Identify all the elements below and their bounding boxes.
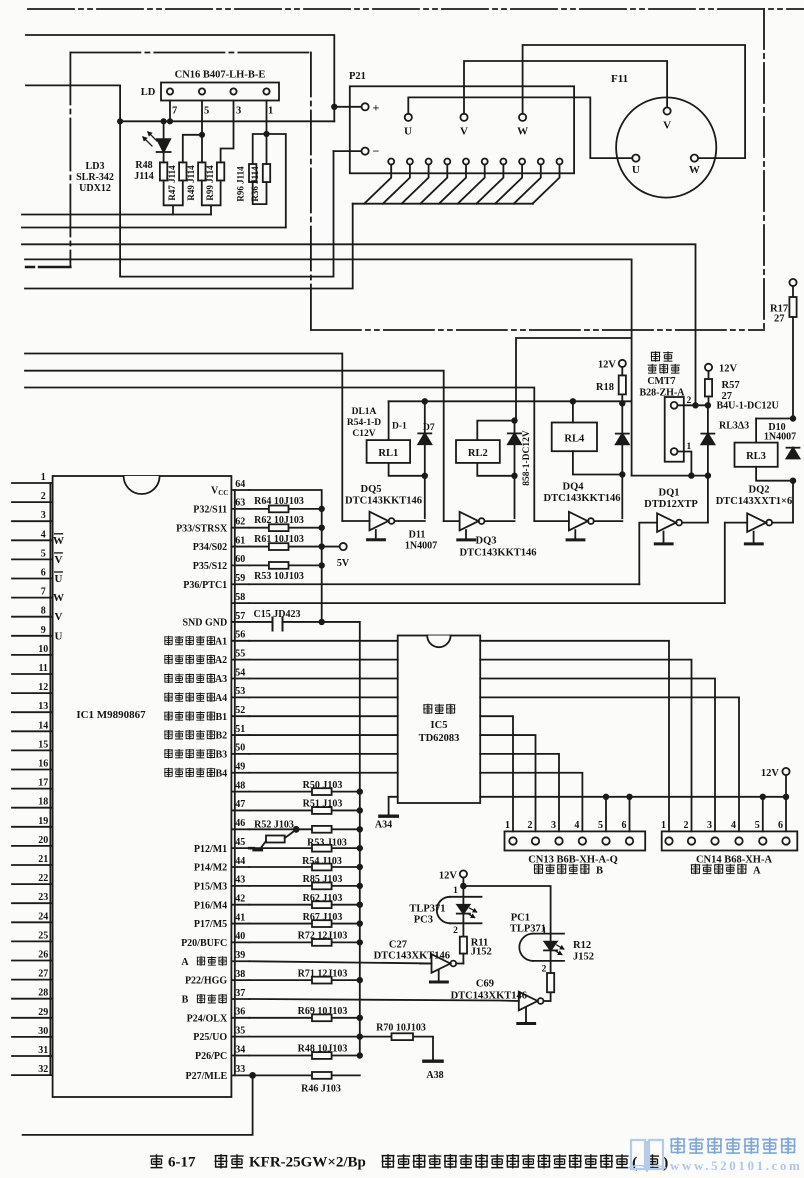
- wire R96-R36 bottom U: [253, 182, 267, 204]
- svg-text:42: 42: [235, 894, 245, 905]
- svg-text:R36 J114: R36 J114: [250, 166, 260, 202]
- wire bundle return: [25, 204, 353, 289]
- relay RL1: [388, 401, 390, 440]
- svg-text:IC1 M9890867: IC1 M9890867: [76, 709, 146, 721]
- terminal 12V valves: [782, 768, 789, 775]
- P21 plus terminal: [362, 103, 369, 110]
- svg-text:R62 J103: R62 J103: [303, 893, 343, 904]
- svg-text:R57: R57: [722, 380, 740, 391]
- IC5 output 2 to CN14 pin2: [480, 660, 691, 832]
- svg-text:27: 27: [38, 969, 48, 980]
- P21 U terminal: [405, 114, 412, 121]
- wire bus1: [22, 214, 211, 216]
- PC1 arrows: [557, 945, 564, 949]
- optocoupler PC1: [533, 934, 564, 961]
- resistor R12: [547, 973, 554, 992]
- diode D10: [787, 447, 800, 449]
- node pin1 dot: [264, 132, 268, 136]
- svg-text:40: 40: [235, 931, 245, 942]
- svg-text:52: 52: [235, 705, 245, 716]
- svg-text:P12/M1: P12/M1: [194, 844, 227, 855]
- svg-text:B: B: [182, 995, 189, 1006]
- wire pin62 + resistor R62: [249, 527, 321, 529]
- svg-text:36: 36: [235, 1007, 245, 1018]
- wire minus return: [121, 151, 334, 277]
- wire relay supply rail: [389, 400, 632, 402]
- svg-text:14: 14: [38, 720, 48, 731]
- node + junction dot: [332, 105, 337, 110]
- svg-text:R96 J114: R96 J114: [236, 166, 246, 202]
- PC3 arrows: [470, 908, 477, 912]
- svg-text:5V: 5V: [337, 558, 350, 569]
- svg-text:32: 32: [38, 1064, 48, 1075]
- wire pin33 + resistor R46: [249, 1074, 359, 1076]
- svg-text:R53 10J103: R53 10J103: [254, 571, 304, 582]
- svg-text:29: 29: [38, 1007, 48, 1018]
- svg-text:12V: 12V: [761, 768, 780, 779]
- svg-text:CMT7: CMT7: [647, 376, 675, 387]
- svg-text:RL4: RL4: [564, 434, 585, 445]
- wire to P21 plus: [334, 106, 361, 108]
- boundary dash-dot small box top: [70, 52, 311, 54]
- svg-text:R12: R12: [573, 940, 591, 951]
- svg-text:A2: A2: [215, 655, 227, 666]
- wire pin46 + resistor R53b: [249, 828, 359, 830]
- svg-text:RL3: RL3: [746, 451, 766, 462]
- svg-text:TLP371: TLP371: [409, 904, 445, 915]
- svg-text:DTD12XTP: DTD12XTP: [644, 499, 698, 510]
- ground C27: [438, 970, 440, 981]
- ground DQ3: [465, 530, 467, 539]
- svg-text:J152: J152: [471, 947, 492, 958]
- wire pin35 + resistor R70 to A38: [249, 1037, 433, 1060]
- svg-text:1: 1: [542, 927, 547, 937]
- svg-text:3: 3: [41, 510, 46, 521]
- F11 W terminal: [691, 155, 698, 162]
- wire 12V rail valves: [480, 797, 786, 832]
- svg-text:13: 13: [38, 701, 48, 712]
- P21 W terminal: [519, 114, 526, 121]
- svg-text:+: +: [373, 101, 380, 115]
- wire R48-R47 bottom U: [164, 181, 183, 215]
- svg-text:3: 3: [236, 106, 241, 117]
- svg-text:45: 45: [235, 837, 245, 848]
- wire CN16 pin3: [221, 101, 234, 163]
- node feed dot: [118, 119, 122, 123]
- IC5 output 8 to CN13 pin4: [480, 773, 582, 832]
- svg-text:R64 10J103: R64 10J103: [254, 496, 304, 507]
- svg-text:B: B: [596, 866, 603, 877]
- svg-text:P26/PC: P26/PC: [195, 1051, 227, 1062]
- wire W phase: [523, 45, 746, 158]
- svg-text:54: 54: [235, 667, 245, 678]
- svg-text:J114: J114: [134, 171, 153, 182]
- LED LD3 symbol: [163, 121, 165, 139]
- svg-text:B4U-1-DC12U: B4U-1-DC12U: [717, 401, 779, 412]
- svg-text:W: W: [517, 126, 528, 138]
- svg-text:R48: R48: [135, 160, 152, 171]
- svg-text:R69 10J103: R69 10J103: [298, 1006, 348, 1017]
- P21 minus terminal: [362, 148, 369, 155]
- svg-text:R18: R18: [596, 382, 614, 393]
- diode D7: [424, 401, 426, 433]
- svg-text:33: 33: [235, 1064, 245, 1075]
- svg-text:59: 59: [235, 573, 245, 584]
- wire CMT7 pin1: [678, 452, 692, 476]
- svg-text:DQ4: DQ4: [563, 482, 585, 493]
- boundary dash-dot bottom-left stub: [26, 266, 70, 268]
- svg-text:DQ2: DQ2: [749, 485, 770, 496]
- wire pin64 Vcc: [249, 490, 321, 622]
- IC1 top notch: [124, 476, 160, 494]
- terminal 5V: [340, 543, 347, 550]
- svg-text:PC1: PC1: [511, 913, 530, 924]
- svg-text:DTC143XXT1×6: DTC143XXT1×6: [716, 496, 793, 507]
- svg-text:P34/S02: P34/S02: [193, 542, 227, 553]
- svg-text:38: 38: [235, 969, 245, 980]
- 12V R18 branch: [619, 360, 626, 367]
- ground DQ1: [663, 532, 665, 543]
- svg-text:64: 64: [235, 479, 245, 490]
- svg-text:IC5: IC5: [431, 720, 448, 731]
- wire pin34 + resistor R48b: [249, 1055, 359, 1057]
- wire bus4: [25, 259, 632, 475]
- svg-text:7: 7: [172, 106, 177, 117]
- svg-text:TD62083: TD62083: [419, 733, 460, 744]
- IC5 output 3 to CN14 pin3: [480, 679, 715, 832]
- svg-text:4: 4: [574, 820, 579, 831]
- svg-text:J152: J152: [573, 952, 594, 963]
- svg-text:DTC143KKT146: DTC143KKT146: [543, 493, 620, 504]
- wire pin33 ground return: [23, 1075, 253, 1135]
- svg-text:4: 4: [41, 529, 46, 540]
- diode RL2 flyback: [514, 421, 516, 434]
- node R47 tee dot: [200, 133, 204, 137]
- svg-text:R52 J103: R52 J103: [254, 820, 294, 831]
- svg-text:R67 J103: R67 J103: [303, 912, 343, 923]
- wire pin58 to DQ2: [249, 602, 725, 604]
- svg-text:R53 J103: R53 J103: [307, 838, 347, 849]
- svg-text:20: 20: [38, 835, 48, 846]
- svg-text:KFR-25GW×2/Bp: KFR-25GW×2/Bp: [249, 1155, 366, 1171]
- node LED dot: [161, 119, 165, 123]
- svg-text:49: 49: [235, 762, 245, 773]
- svg-text:51: 51: [235, 724, 245, 735]
- svg-text:U: U: [55, 573, 63, 585]
- svg-text:44: 44: [235, 856, 245, 867]
- boundary dash-dot top: [28, 8, 804, 10]
- wire pin57 SND GND + capacitor C15: [249, 621, 272, 623]
- svg-text:SND GND: SND GND: [182, 618, 227, 629]
- svg-text:6: 6: [778, 820, 783, 831]
- wire pin37 B-comm to C69: [249, 999, 519, 1001]
- IC IC5 TD62083 outline: [398, 636, 481, 804]
- svg-text:30: 30: [38, 1026, 48, 1037]
- svg-text:DQ5: DQ5: [361, 484, 382, 495]
- label CMT7 block: [651, 351, 660, 362]
- svg-text:U: U: [632, 164, 640, 176]
- svg-text:C12V: C12V: [352, 429, 375, 439]
- svg-text:P16/M4: P16/M4: [194, 900, 227, 911]
- boundary dash-dot middle horizontal: [311, 329, 764, 331]
- transistor DQ1 inverter: [639, 523, 657, 585]
- svg-text:DTC143KKT146: DTC143KKT146: [459, 548, 536, 559]
- relay RL3: [756, 418, 793, 420]
- svg-text:16: 16: [38, 759, 48, 770]
- svg-text:12: 12: [38, 682, 48, 693]
- svg-text:R54 J103: R54 J103: [302, 856, 342, 867]
- wire R96 top tee: [253, 134, 286, 228]
- svg-text:22: 22: [38, 873, 48, 884]
- wire bus2: [22, 227, 286, 229]
- svg-text:DL1A: DL1A: [352, 407, 377, 417]
- svg-text:2: 2: [453, 926, 458, 936]
- svg-text:25: 25: [38, 930, 48, 941]
- svg-text:1N4007: 1N4007: [405, 541, 437, 552]
- svg-text:4: 4: [731, 820, 736, 831]
- svg-text:1: 1: [268, 106, 273, 117]
- svg-text:23: 23: [38, 892, 48, 903]
- svg-text:26: 26: [38, 950, 48, 961]
- svg-text:V: V: [55, 554, 63, 566]
- svg-text:P14/M2: P14/M2: [194, 863, 227, 874]
- svg-text:43: 43: [235, 875, 245, 886]
- F11 V terminal: [664, 107, 671, 114]
- boundary dash-dot small box left: [69, 53, 71, 268]
- IC5 top notch: [427, 636, 450, 648]
- svg-text:C69: C69: [476, 979, 494, 990]
- wire pin63 + resistor R64: [249, 508, 321, 510]
- IC5 output 1 to CN14 pin1: [480, 641, 669, 832]
- wire RL2 feed branch: [516, 338, 632, 421]
- P21 V terminal: [460, 114, 467, 121]
- svg-text:R72 12J103: R72 12J103: [298, 931, 348, 942]
- svg-text:A38: A38: [426, 1070, 443, 1081]
- svg-text:P21: P21: [349, 71, 366, 82]
- svg-text:1: 1: [661, 820, 666, 831]
- svg-text:B1: B1: [216, 712, 228, 723]
- P21 bottom pins and harness: [353, 159, 563, 204]
- svg-text:A3: A3: [215, 674, 227, 685]
- motor F11 circle: [616, 97, 716, 197]
- connector P21 box: [350, 86, 574, 173]
- svg-text:R47 J114: R47 J114: [167, 165, 177, 201]
- node rail dots: [423, 399, 428, 404]
- wire pin41 + resistor R72: [249, 923, 359, 925]
- svg-text:18: 18: [38, 797, 48, 808]
- svg-text:7: 7: [41, 587, 46, 598]
- svg-text:2: 2: [41, 491, 46, 502]
- wire pin60 + resistor R53: [249, 564, 321, 566]
- transistor DQ2 inverter: [725, 523, 747, 604]
- svg-text:61: 61: [235, 535, 245, 546]
- svg-text:R46 J103: R46 J103: [301, 1084, 341, 1095]
- svg-text:P17/M5: P17/M5: [194, 919, 227, 930]
- svg-text:858-1-DC12V: 858-1-DC12V: [522, 430, 532, 486]
- svg-text:DTC143KKT146: DTC143KKT146: [345, 496, 422, 507]
- svg-text:62: 62: [235, 517, 245, 528]
- svg-text:12V: 12V: [598, 360, 617, 371]
- svg-text:2: 2: [684, 820, 689, 831]
- resistor R11: [460, 937, 467, 954]
- svg-text:DQ3: DQ3: [476, 536, 497, 547]
- CN16 pin circles: [167, 88, 173, 94]
- svg-text:D-1: D-1: [392, 422, 407, 432]
- svg-text:DTC143XKT146: DTC143XKT146: [374, 951, 450, 962]
- svg-text:LD3: LD3: [86, 161, 105, 172]
- svg-text:P33/STRSX: P33/STRSX: [176, 523, 228, 534]
- svg-text:W: W: [689, 164, 700, 176]
- wire pin45 + resistor R54: [254, 847, 360, 849]
- svg-text:R48 10J103: R48 10J103: [298, 1044, 348, 1055]
- ground A34: [389, 797, 398, 815]
- wire R49-R99 bottom U: [202, 181, 221, 215]
- transistor C69 inverter: [519, 992, 538, 1011]
- svg-text:R51 J103: R51 J103: [303, 799, 343, 810]
- svg-text:2: 2: [542, 964, 547, 974]
- svg-text:6: 6: [622, 820, 627, 831]
- wire CN16 pin7: [169, 101, 171, 122]
- resistor R99 body: [217, 162, 224, 180]
- boundary dash-dot right: [763, 9, 765, 330]
- wire bus3: [22, 244, 696, 405]
- svg-text:V: V: [460, 126, 468, 138]
- svg-text:P32/S11: P32/S11: [193, 505, 227, 516]
- svg-text:50: 50: [235, 743, 245, 754]
- svg-text:34: 34: [235, 1044, 245, 1055]
- svg-text:PC3: PC3: [414, 915, 433, 926]
- svg-text:SLR-342: SLR-342: [76, 172, 114, 183]
- wire U phase: [408, 97, 632, 158]
- wire pin48 + resistor R50: [249, 791, 359, 793]
- resistor R52 jog: [249, 847, 254, 850]
- connector CN16 box: [161, 83, 279, 101]
- svg-text:B3: B3: [216, 750, 228, 761]
- svg-text:5: 5: [41, 548, 46, 559]
- svg-text:3: 3: [551, 820, 556, 831]
- connector CN14 box: [662, 831, 798, 850]
- svg-text:DQ1: DQ1: [659, 488, 680, 499]
- svg-text:P25/UO: P25/UO: [193, 1032, 227, 1043]
- svg-text:R49 J114: R49 J114: [186, 165, 196, 201]
- svg-text:R70 10J103: R70 10J103: [376, 1023, 426, 1034]
- svg-text:2: 2: [687, 396, 692, 406]
- svg-text:A4: A4: [215, 693, 227, 704]
- svg-text:5: 5: [598, 820, 603, 831]
- F11 U terminal: [632, 155, 639, 162]
- resistor R49 body: [198, 162, 205, 180]
- svg-text:www.520101.com: www.520101.com: [670, 1158, 802, 1173]
- svg-text:39: 39: [235, 950, 245, 961]
- IC5 output 5 to CN13 pin1: [480, 716, 513, 831]
- 12V R57 branch: [705, 364, 712, 371]
- svg-text:1: 1: [453, 886, 458, 896]
- IC1 right pin ticks: [231, 490, 249, 1075]
- svg-text:DTC143XKT146: DTC143XKT146: [451, 991, 527, 1002]
- svg-text:9: 9: [41, 625, 46, 636]
- svg-text:1: 1: [505, 820, 510, 831]
- svg-text:28: 28: [38, 988, 48, 999]
- svg-text:R61 10J103: R61 10J103: [254, 534, 304, 545]
- ground DQ4: [574, 530, 576, 539]
- svg-text:6-17: 6-17: [168, 1155, 196, 1171]
- wire CN16 pin1: [266, 101, 268, 165]
- wire pin61 + resistor R61 to 5V: [249, 546, 339, 548]
- svg-text:27: 27: [774, 314, 785, 325]
- svg-text:D7: D7: [423, 423, 435, 433]
- wire pin42 + resistor R67: [249, 904, 359, 906]
- svg-text:P24/OLX: P24/OLX: [187, 1013, 228, 1024]
- wire pin47 + resistor R51: [249, 809, 359, 811]
- svg-text:56: 56: [235, 630, 245, 641]
- optocoupler PC3: [462, 886, 464, 897]
- wire R47 top tee: [183, 135, 202, 163]
- R17 branch: [789, 279, 796, 286]
- svg-text:8: 8: [41, 606, 46, 617]
- wire to P21 minus: [334, 150, 362, 152]
- svg-text:W: W: [53, 592, 64, 604]
- svg-text:P22/HGG: P22/HGG: [185, 976, 227, 987]
- svg-text:B4: B4: [216, 768, 228, 779]
- IC IC1 M9890867 outline: [53, 476, 232, 1097]
- svg-text:21: 21: [38, 854, 48, 865]
- ground DQ2: [753, 532, 755, 543]
- wires pins 56-49 to IC5: [249, 641, 397, 773]
- resistor R96 body: [249, 164, 256, 182]
- transistor DQ4 inverter: [534, 520, 569, 522]
- svg-text:R54-1-D: R54-1-D: [347, 418, 381, 428]
- svg-text:48: 48: [235, 780, 245, 791]
- transistor C27 inverter: [432, 954, 451, 973]
- svg-text:UDX12: UDX12: [79, 183, 111, 194]
- IC5 output 7 to CN13 pin3: [480, 754, 559, 832]
- wire line G: [25, 354, 342, 522]
- wire pin43 + resistor R62b: [249, 885, 359, 887]
- svg-text:1N4007: 1N4007: [764, 432, 796, 443]
- svg-text:RL1: RL1: [378, 448, 398, 459]
- svg-text:C15 JD423: C15 JD423: [254, 609, 301, 620]
- relay RL2: [477, 421, 514, 441]
- LED arrows: [148, 132, 157, 141]
- power relay CMT7 box: [632, 475, 709, 477]
- wire line I: [25, 388, 534, 522]
- svg-text:V: V: [55, 611, 63, 623]
- resistor R47 body: [179, 162, 186, 180]
- svg-text:P36/PTC1: P36/PTC1: [183, 580, 227, 591]
- resistor R48 body: [160, 162, 167, 180]
- svg-text:5: 5: [755, 820, 760, 831]
- svg-text:31: 31: [38, 1045, 48, 1056]
- svg-text:W: W: [53, 535, 64, 547]
- svg-text:57: 57: [235, 611, 245, 622]
- svg-text:VCC: VCC: [211, 486, 228, 498]
- svg-text:10: 10: [38, 644, 48, 655]
- svg-text:12V: 12V: [439, 871, 458, 882]
- svg-text:12V: 12V: [719, 364, 738, 375]
- svg-text:V: V: [663, 120, 671, 132]
- svg-text:53: 53: [235, 686, 245, 697]
- wire V phase: [464, 61, 667, 114]
- boundary dash-dot small box right edge: [310, 53, 312, 331]
- svg-text:46: 46: [235, 818, 245, 829]
- svg-text:R71 12J103: R71 12J103: [298, 968, 348, 979]
- relay RL4: [572, 401, 574, 422]
- wire line H: [25, 371, 444, 521]
- svg-text:P35/S12: P35/S12: [193, 561, 227, 572]
- connector CN13 box: [505, 831, 646, 850]
- svg-text:RL3Δ3: RL3Δ3: [719, 421, 749, 432]
- wire 12V to PC1: [463, 886, 550, 934]
